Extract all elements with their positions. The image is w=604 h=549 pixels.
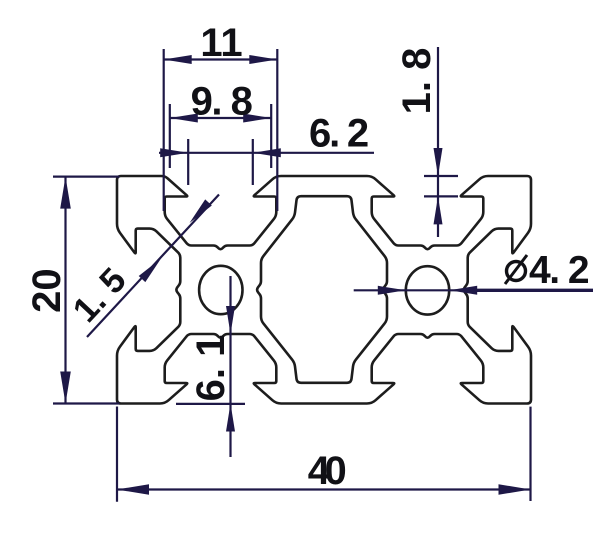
dim 20: dimension line <box>64 177 66 404</box>
dim 9.8: extension lines <box>169 104 171 168</box>
dim 6.1: dimension line <box>229 276 231 457</box>
dim 1.5: dimension line <box>87 195 219 338</box>
dim 40: extension lines <box>116 407 118 502</box>
dim dia4.2: dimension line <box>354 289 593 291</box>
svg-text:4. 2: 4. 2 <box>529 249 589 292</box>
dim dia4.2: diameter symbol <box>507 262 526 281</box>
dim 6.2: extension lines <box>187 139 189 185</box>
dim 20: extension lines <box>53 176 120 178</box>
dim 1.8: arrowheads <box>434 148 443 176</box>
dim 11: dimension line <box>164 58 278 60</box>
dim 6.1: arrowheads <box>226 306 235 334</box>
svg-text:11: 11 <box>200 21 242 65</box>
bore hole left cell <box>199 266 242 314</box>
bore hole right cell <box>406 266 449 314</box>
dim 6.2: dimension line with leader to label <box>159 152 374 154</box>
dim 6.2: arrowheads <box>160 148 188 157</box>
dim 9.8: arrowheads <box>170 114 198 123</box>
dim 9.8: dimension line <box>170 117 271 119</box>
dim dia4.2: arrowheads <box>378 286 406 295</box>
dim 1.5: arrowheads <box>190 199 212 223</box>
dim 40: arrowheads <box>117 484 149 495</box>
dim 20: arrowheads <box>60 177 71 209</box>
svg-text:9. 8: 9. 8 <box>191 80 253 124</box>
svg-text:20: 20 <box>25 268 69 313</box>
svg-text:6. 2: 6. 2 <box>309 112 368 156</box>
svg-text:40: 40 <box>308 449 346 493</box>
svg-text:6. 1: 6. 1 <box>189 335 233 402</box>
dim 6.1: lower extension tick <box>176 403 245 405</box>
central cavity octagon <box>257 196 387 383</box>
dim 11: extension lines <box>163 49 165 211</box>
dim 40: dimension line <box>117 488 531 490</box>
extrusion profile outer contour with V-slots <box>117 176 531 404</box>
svg-text:1. 8: 1. 8 <box>395 48 439 115</box>
dim 1.8: dimension line <box>437 47 439 237</box>
dim 11: arrowheads <box>164 55 192 64</box>
dim 1.8: extension ticks <box>424 175 458 177</box>
